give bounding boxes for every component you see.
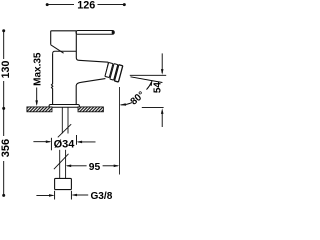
vertical reference line at aerator tip [119,87,121,175]
base plate [49,105,79,108]
break slash upper [58,124,71,137]
dimension G3/8 right extension bar [70,191,72,200]
dimension 80 degree label [129,90,148,108]
spout end face [105,62,108,76]
dimension Max.35 leader [36,88,38,105]
body top seam [53,51,77,53]
aerator level extension line [130,74,166,76]
supply shank left line [61,108,63,134]
svg-text:G3/8: G3/8 [90,191,112,200]
aerator axis line [131,77,163,83]
svg-text:126: 126 [77,0,95,12]
countertop hatched section left [27,107,52,112]
dimension Ø34 right extension bar [76,135,78,145]
dimension 126 end dots [46,3,49,6]
dimension 54 lower arrow [161,108,164,114]
supply hose right line [65,150,67,179]
dimension 80 degree arc upper segment [147,81,152,89]
dimension 130 end dots [2,29,5,32]
svg-text:Ø34: Ø34 [54,139,76,151]
svg-text:95: 95 [89,162,101,173]
dimension Max.35 arrowhead [35,100,38,106]
dimension Ø34 right arrow [78,141,96,143]
lever handle bar [76,31,114,35]
dimension G3/8 left arrow [36,194,53,196]
supply shank right line [67,108,69,134]
dimension 130 label [0,61,12,79]
dimension Ø34 left arrow [33,141,50,143]
dimension 356 end dot [2,194,5,197]
aerator group [104,62,122,82]
dimension 95 right arrow [114,165,120,168]
dimension G3/8 left extension bar [54,191,56,200]
supply hose left line [59,150,61,179]
connection nut G3/8 [55,178,72,189]
countertop hatched section right [78,107,103,112]
handle cap [51,31,77,45]
svg-text:130: 130 [0,61,12,79]
spout bottom edge [76,79,105,105]
svg-text:Max.35: Max.35 [32,52,43,86]
dimension 95 line [67,165,118,167]
countertop level extension line [142,107,164,109]
aerator ring 3 (tip) [114,65,122,82]
dimension 54 lower line [161,111,163,127]
dimension G3/8 right arrow [73,194,88,196]
aerator ring 2 [110,64,118,80]
dimension Max.35 label [32,52,43,86]
break slash lower [54,154,69,169]
dimension 80 degree arc lower segment [121,103,132,105]
aerator collar ring 1 [105,62,113,77]
dimension 126 line [47,4,125,6]
dimension 54 label [153,82,164,93]
dimension 130 line [3,31,5,109]
dimension 54 upper arrow [161,69,164,75]
dimension Ø34 left extension bar [50,138,52,151]
dimension 54 upper line [161,53,163,73]
dimension 356 line [3,108,5,195]
dimension 80 degree lower arrowhead [120,103,126,106]
dimension 95 left arrow [66,165,72,168]
svg-text:54: 54 [153,82,164,93]
lever handle dark tip [112,31,115,35]
body right edge and spout top [76,31,108,62]
handle cap chamfer [51,45,64,53]
svg-text:356: 356 [0,139,12,157]
body left edge with notch [52,54,53,105]
dimension 80 degree upper arrowhead [149,80,152,86]
dimension 356 label [0,139,12,157]
